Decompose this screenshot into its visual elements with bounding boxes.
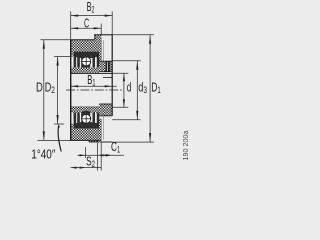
svg-text:190 200a: 190 200a: [181, 131, 190, 161]
svg-text:D: D: [36, 80, 43, 94]
svg-text:d: d: [127, 80, 132, 94]
svg-text:C: C: [84, 17, 89, 31]
svg-text:1°40″: 1°40″: [31, 148, 56, 162]
